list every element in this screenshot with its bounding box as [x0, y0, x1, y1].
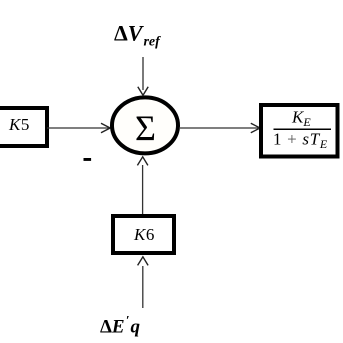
wire summer to exciter block: [179, 127, 258, 129]
fraction bar: [274, 128, 332, 130]
arrowhead into K6 bottom: [138, 257, 149, 266]
svg-text:q: q: [131, 317, 141, 338]
arrowhead into exciter block: [251, 123, 260, 133]
svg-text:1 + sTE: 1 + sTE: [273, 130, 328, 152]
arrowhead into summer left: [101, 123, 110, 133]
svg-text:ΔE: ΔE: [100, 317, 125, 338]
svg-text:K5: K5: [8, 115, 29, 134]
svg-text:K6: K6: [133, 225, 154, 244]
summing junction U1: [112, 97, 178, 153]
wire K5 to summer: [47, 127, 109, 129]
arrowhead into summer bottom: [137, 157, 148, 166]
arrowhead into summer top: [138, 87, 148, 96]
minus sign: [84, 158, 92, 161]
svg-text:′: ′: [126, 313, 130, 328]
wire K6 to summer: [142, 165, 144, 214]
block exciter KE/(1+sTE): [261, 105, 338, 157]
wire dE'q to K6: [142, 266, 144, 308]
block K5: [0, 108, 47, 146]
wire dVref to summer: [142, 57, 144, 90]
block K6: [113, 216, 174, 253]
svg-text:Σ: Σ: [135, 108, 156, 148]
